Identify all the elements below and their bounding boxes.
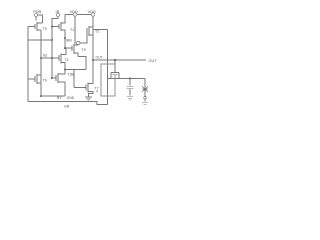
transistor T1 xyxy=(52,15,65,49)
junction rail-T3gate xyxy=(51,77,53,79)
wire VDD1-VDD2 tie xyxy=(77,14,92,16)
wire VDD1 down to T9 xyxy=(74,16,76,44)
svg-text:OUT: OUT xyxy=(149,59,158,63)
svg-text:T9: T9 xyxy=(82,48,86,52)
junction box corner xyxy=(64,69,66,71)
wire cross y40 xyxy=(28,39,52,41)
junction railB-96 xyxy=(40,95,42,97)
ground cap xyxy=(127,96,133,100)
pin IB xyxy=(56,13,59,16)
transistor T9 xyxy=(65,44,78,57)
transistor T4 xyxy=(59,48,66,70)
svg-text:T4: T4 xyxy=(65,58,69,62)
svg-text:T6: T6 xyxy=(43,79,47,83)
wire gate feedback loop xyxy=(101,64,115,96)
svg-text:T1: T1 xyxy=(70,28,74,32)
svg-text:GN: GN xyxy=(64,105,70,109)
transistor T6 xyxy=(28,74,41,84)
junction N2 xyxy=(40,57,42,59)
wire VDD2 rail down xyxy=(92,16,94,84)
transistor T3 xyxy=(52,70,65,97)
svg-text:OUT: OUT xyxy=(96,55,103,59)
junction T1 source xyxy=(64,37,66,39)
wire PDB stub down xyxy=(35,17,37,21)
ground diode xyxy=(142,102,148,104)
wire OUT line xyxy=(93,59,146,61)
wire IB to mid rail xyxy=(52,17,58,78)
wire right rail down xyxy=(107,30,109,105)
svg-text:T2: T2 xyxy=(95,30,99,34)
pin PDB xyxy=(34,13,37,16)
svg-text:BY: BY xyxy=(57,96,62,100)
bottom rail xyxy=(28,102,108,105)
wire T2 gate lead to IBN xyxy=(80,34,87,43)
wire T2 drain to right rail xyxy=(93,29,108,31)
wire left gate rail xyxy=(27,27,29,102)
wire T1 drain to VDD1 xyxy=(65,14,73,16)
junction cap bus xyxy=(129,78,131,80)
node IBN pin xyxy=(77,41,80,44)
junction gate node xyxy=(64,47,66,49)
pin VDD2 xyxy=(91,13,94,16)
wire load bus xyxy=(108,78,146,80)
wire diode to ground xyxy=(144,92,146,102)
wire rail B xyxy=(40,30,42,96)
junction OUT-branch xyxy=(114,59,116,61)
junction OUT-rail xyxy=(92,59,94,61)
ground T7 xyxy=(85,97,92,101)
wire T7 gate from box xyxy=(73,70,75,88)
transistor T2 xyxy=(87,26,93,36)
wire T3 source to rail B xyxy=(41,95,65,97)
svg-text:4: 4 xyxy=(96,90,98,94)
wire box bottom xyxy=(65,69,86,71)
transistor T7 xyxy=(74,83,93,97)
svg-text:N2: N2 xyxy=(43,54,47,58)
wire node N2 xyxy=(41,57,59,59)
junction rail-N2 xyxy=(51,57,53,59)
svg-text:GND: GND xyxy=(67,96,75,100)
pin VDD1 xyxy=(73,13,76,16)
wire PDB jog to T5 drain xyxy=(38,15,43,23)
capacitor C1 xyxy=(127,79,134,96)
diode lower terminal circle xyxy=(144,96,147,99)
pass transistor T10 xyxy=(111,60,119,79)
transistor T5 xyxy=(28,22,43,31)
wire T9 source to box xyxy=(78,57,86,70)
svg-text:IBN: IBN xyxy=(66,39,72,43)
svg-text:T5: T5 xyxy=(43,27,47,31)
svg-text:T3B: T3B xyxy=(68,72,75,76)
zener diode D1 xyxy=(142,79,148,93)
junction rail-T1gate xyxy=(51,26,53,28)
junction rail-y40 xyxy=(51,39,53,41)
